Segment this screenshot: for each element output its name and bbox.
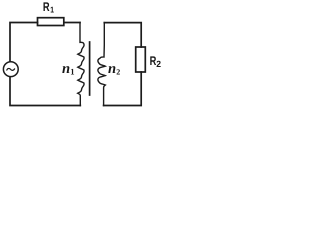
svg-text:2: 2 xyxy=(156,59,161,69)
svg-text:n: n xyxy=(108,61,116,77)
inductor n2 (secondary winding) xyxy=(98,23,105,106)
svg-text:1: 1 xyxy=(50,4,54,14)
ac source sine symbol xyxy=(7,68,15,70)
inductor n1 (primary winding) xyxy=(78,23,84,106)
wire: right loop top xyxy=(104,23,141,47)
wire: left loop bottom xyxy=(10,77,80,106)
wire: right loop bottom xyxy=(104,72,142,106)
svg-text:2: 2 xyxy=(116,68,120,77)
wire: left loop top-left xyxy=(10,23,38,62)
label n2 xyxy=(108,61,120,77)
transformer circuit schematic xyxy=(0,0,169,117)
svg-text:R: R xyxy=(150,54,157,68)
svg-text:n: n xyxy=(62,61,70,77)
resistor R1 xyxy=(38,18,64,26)
transformer core xyxy=(89,42,91,95)
svg-text:R: R xyxy=(43,0,50,14)
resistor R2 xyxy=(136,47,146,72)
label R1 xyxy=(43,0,54,14)
wire: R1 right to n1 top corner xyxy=(64,22,80,24)
ac source V1 xyxy=(3,62,18,77)
label n1 xyxy=(62,61,74,77)
label R2 xyxy=(150,54,161,69)
svg-text:1: 1 xyxy=(70,67,74,77)
